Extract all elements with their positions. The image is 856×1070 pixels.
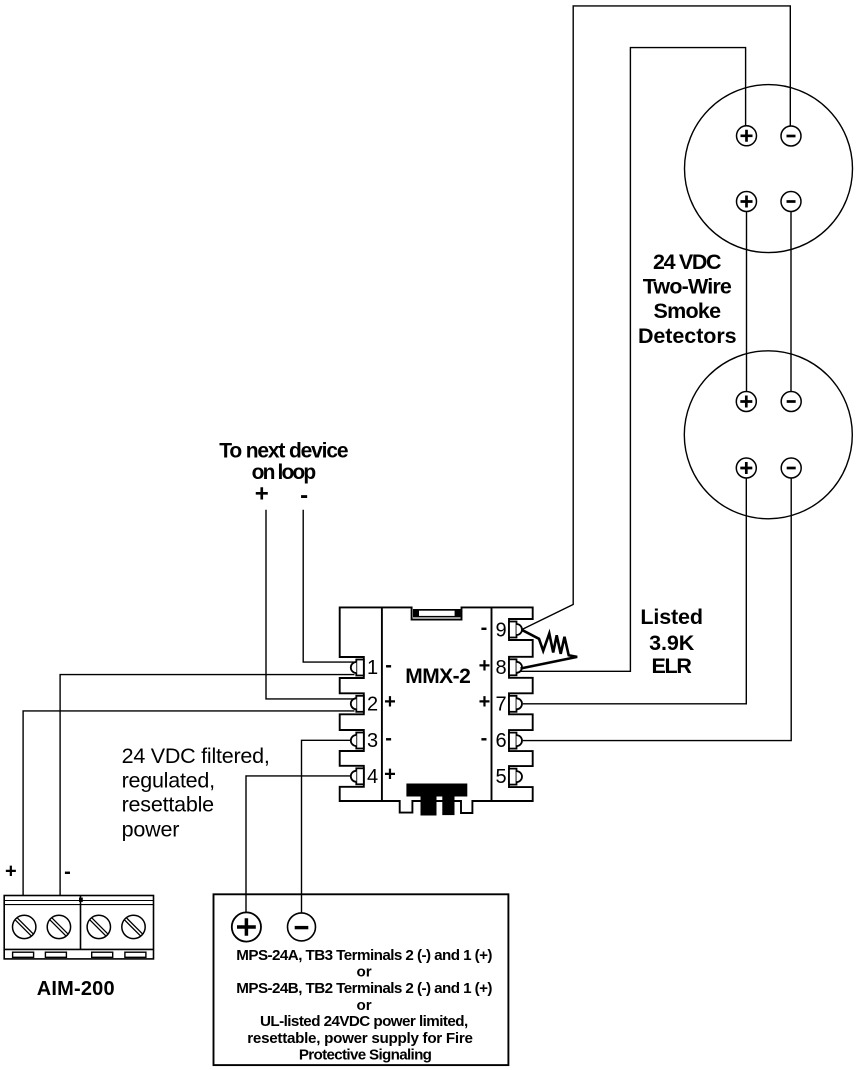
svg-text:-: - [481,727,488,749]
svg-text:9: 9 [495,619,506,641]
svg-text:24 VDC filtered,: 24 VDC filtered, [122,744,270,768]
svg-text:or: or [357,964,372,981]
svg-text:UL-listed 24VDC power limited,: UL-listed 24VDC power limited, [260,1013,468,1030]
svg-text:Two-Wire: Two-Wire [643,275,732,299]
svg-text:2: 2 [367,693,378,715]
svg-text:To next device: To next device [219,440,348,463]
svg-text:MPS-24B, TB2 Terminals 2 (-) a: MPS-24B, TB2 Terminals 2 (-) and 1 (+) [236,980,492,997]
svg-text:MMX-2: MMX-2 [405,665,471,688]
svg-text:resettable, power supply for F: resettable, power supply for Fire [247,1030,473,1047]
svg-text:7: 7 [495,693,506,715]
svg-text:+: + [384,764,396,786]
svg-text:8: 8 [495,657,506,679]
svg-text:regulated,: regulated, [122,768,216,792]
svg-text:5: 5 [495,766,506,788]
svg-text:Smoke: Smoke [654,299,722,323]
svg-text:ELR: ELR [651,654,692,678]
svg-text:MPS-24A, TB3 Terminals 2 (-) a: MPS-24A, TB3 Terminals 2 (-) and 1 (+) [236,947,492,964]
svg-text:Detectors: Detectors [638,324,737,348]
svg-text:+: + [479,691,491,713]
svg-text:+: + [255,481,269,508]
svg-text:6: 6 [495,730,506,752]
svg-text:+: + [384,691,396,713]
svg-text:1: 1 [367,657,378,679]
svg-text:or: or [357,997,372,1014]
svg-text:Listed: Listed [640,605,703,629]
svg-text:+: + [479,655,491,677]
svg-text:-: - [64,861,71,883]
svg-text:-: - [300,482,308,509]
svg-text:+: + [5,861,17,883]
svg-text:3.9K: 3.9K [649,631,695,655]
svg-text:4: 4 [367,766,378,788]
svg-text:24 VDC: 24 VDC [653,250,722,274]
svg-text:3: 3 [367,730,378,752]
svg-text:Protective Signaling: Protective Signaling [299,1047,432,1064]
svg-text:-: - [385,727,392,749]
svg-text:-: - [481,617,488,639]
svg-text:resettable: resettable [122,793,215,817]
svg-text:power: power [122,817,180,841]
svg-text:-: - [385,654,392,676]
svg-text:AIM-200: AIM-200 [37,978,115,1000]
